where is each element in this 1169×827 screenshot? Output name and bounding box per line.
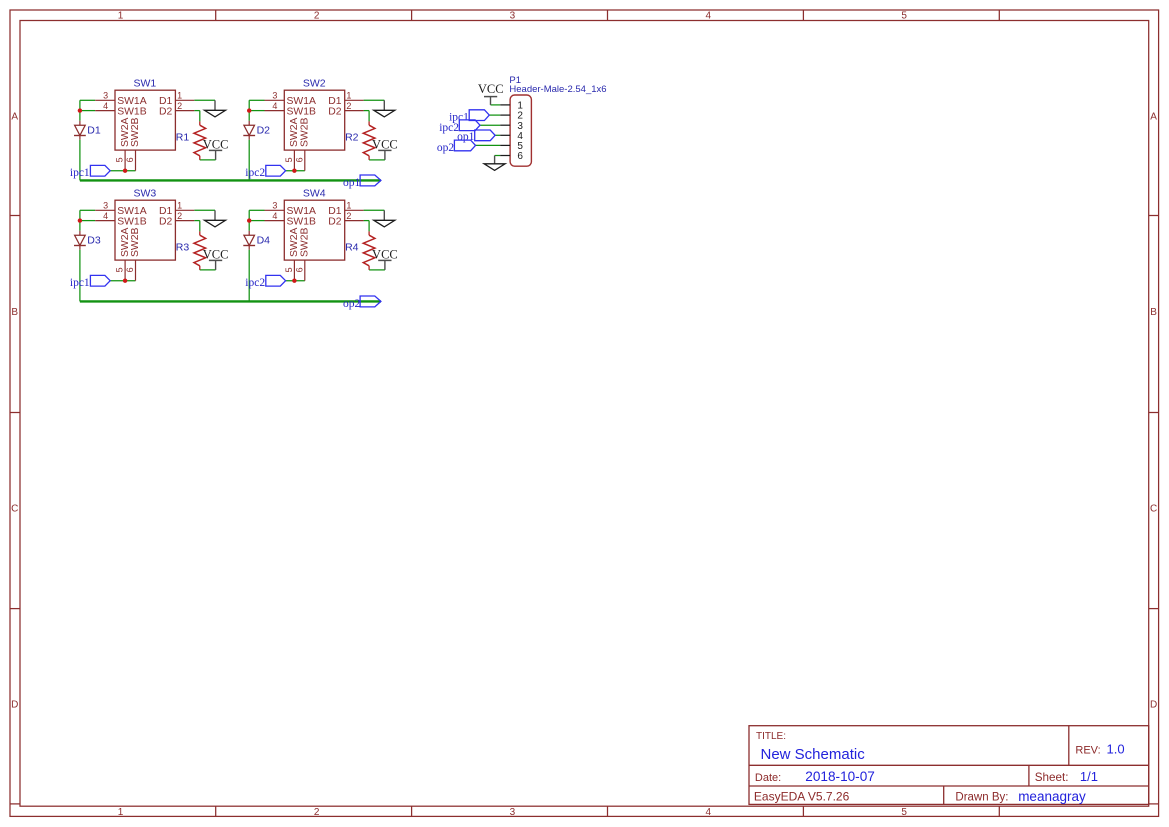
column tick marks top xyxy=(216,10,1000,21)
svg-text:D2: D2 xyxy=(257,124,271,136)
wire junction to diode D2 anode xyxy=(248,111,250,121)
svg-text:2: 2 xyxy=(346,101,351,111)
svg-text:SW2B: SW2B xyxy=(130,117,141,147)
diode D1 xyxy=(74,121,101,140)
svg-text:SW1A: SW1A xyxy=(117,96,147,107)
svg-text:Header-Male-2.54_1x6: Header-Male-2.54_1x6 xyxy=(509,84,606,95)
svg-text:EasyEDA V5.7.26: EasyEDA V5.7.26 xyxy=(754,790,850,804)
junction dot at pin4/D4 xyxy=(247,218,251,222)
wire pin1 to ground of SW4 xyxy=(364,209,385,211)
svg-text:R1: R1 xyxy=(176,131,190,143)
switch SW2 xyxy=(265,77,364,170)
row letters left xyxy=(11,112,18,711)
svg-text:2: 2 xyxy=(314,11,320,22)
net flag ipc1 at SW3 xyxy=(70,275,110,289)
svg-text:R3: R3 xyxy=(176,241,190,253)
svg-text:5: 5 xyxy=(115,267,125,272)
svg-text:R4: R4 xyxy=(345,241,359,253)
svg-text:D1: D1 xyxy=(328,206,342,217)
title block row line 2 xyxy=(749,785,1149,787)
svg-text:SW2B: SW2B xyxy=(299,117,310,147)
junction dot at pin5 of SW1 xyxy=(123,169,127,173)
svg-text:SW2B: SW2B xyxy=(299,227,310,257)
resistor R4 xyxy=(345,231,375,270)
wire ipc1 flag to pins 5,6 of SW1 xyxy=(110,170,135,172)
svg-text:3: 3 xyxy=(272,201,277,211)
resistor R2 xyxy=(345,121,375,159)
wire op2 flag to pin5 of P1 xyxy=(476,144,501,146)
svg-text:6: 6 xyxy=(294,267,304,272)
svg-text:op2: op2 xyxy=(437,142,455,154)
net flag op1 at P1 xyxy=(457,130,495,143)
diode D3 xyxy=(74,231,101,250)
diode D4 xyxy=(243,231,270,250)
title block divider Drawn By xyxy=(943,786,945,804)
svg-text:SW1A: SW1A xyxy=(117,206,147,217)
wire op1 flag to pin4 of P1 xyxy=(495,134,500,136)
wire pin3 net of SW1 xyxy=(80,100,95,110)
svg-text:A: A xyxy=(11,112,18,123)
wire VCC to pin1 of P1 xyxy=(491,104,501,106)
svg-text:VCC: VCC xyxy=(478,82,504,96)
svg-text:2: 2 xyxy=(346,211,351,221)
ground symbol at pin1 of SW2 xyxy=(374,100,395,117)
svg-text:SW1: SW1 xyxy=(134,77,157,89)
net flag ipc2 at SW4 xyxy=(245,275,285,289)
svg-text:6: 6 xyxy=(517,151,523,162)
svg-text:4: 4 xyxy=(103,101,108,111)
svg-text:SW2: SW2 xyxy=(303,77,326,89)
svg-text:D2: D2 xyxy=(159,106,173,117)
wire ipc2 flag to pins 5,6 of SW4 xyxy=(286,280,305,282)
column numbers top xyxy=(118,11,908,22)
VCC flag at resistor R2 xyxy=(372,138,398,160)
svg-text:meanagray: meanagray xyxy=(1018,789,1086,804)
svg-text:VCC: VCC xyxy=(372,138,398,152)
wire pin6 of P1 to ground xyxy=(495,155,501,157)
net flag ipc1 at P1 xyxy=(449,110,489,124)
svg-text:D4: D4 xyxy=(257,234,271,246)
svg-text:4: 4 xyxy=(272,101,277,111)
net flag ipc2 at P1 xyxy=(439,120,480,134)
wire ipc2 flag to pins 5,6 of SW2 xyxy=(286,170,305,172)
svg-text:New Schematic: New Schematic xyxy=(761,746,866,763)
svg-text:5: 5 xyxy=(901,11,907,22)
svg-text:2018-10-07: 2018-10-07 xyxy=(805,769,875,784)
svg-text:D: D xyxy=(11,700,18,711)
svg-text:6: 6 xyxy=(125,157,135,162)
svg-text:C: C xyxy=(1150,504,1157,515)
ground symbol at pin1 of SW1 xyxy=(205,100,226,117)
junction dot at pin4/D1 xyxy=(78,108,82,112)
wire pin3 net of SW4 xyxy=(249,210,264,220)
row tick marks right xyxy=(1149,216,1159,804)
wire junction to diode D3 anode xyxy=(79,221,81,231)
net flag ipc1 at SW1 xyxy=(70,165,110,179)
svg-text:6: 6 xyxy=(294,157,304,162)
svg-text:SW4: SW4 xyxy=(303,187,326,199)
svg-text:D1: D1 xyxy=(87,124,101,136)
svg-text:3: 3 xyxy=(103,91,108,101)
svg-text:1: 1 xyxy=(177,91,182,101)
svg-text:5: 5 xyxy=(115,157,125,162)
svg-text:1: 1 xyxy=(346,91,351,101)
wire resistor R2 bottom to VCC xyxy=(369,159,385,161)
junction dot at pin5 of SW4 xyxy=(292,279,296,283)
wire pin4 net of SW1 xyxy=(80,110,95,112)
svg-text:SW1B: SW1B xyxy=(287,106,317,117)
wire pin1 to ground of SW1 xyxy=(194,99,215,101)
wire diode D1 cathode down to bus xyxy=(79,140,81,181)
diode D2 xyxy=(243,121,270,140)
wire pin4 net of SW3 xyxy=(80,220,95,222)
wire pin3 net of SW2 xyxy=(249,100,264,110)
svg-text:3: 3 xyxy=(510,807,516,818)
svg-text:VCC: VCC xyxy=(372,248,398,262)
svg-text:3: 3 xyxy=(510,11,516,22)
ground symbol at pin6 of P1 xyxy=(484,156,505,171)
svg-text:3: 3 xyxy=(272,91,277,101)
svg-text:REV:: REV: xyxy=(1075,745,1100,757)
svg-text:ipc2: ipc2 xyxy=(245,167,265,179)
svg-text:D1: D1 xyxy=(159,206,173,217)
wire pin4 net of SW2 xyxy=(249,110,264,112)
title block divider Sheet xyxy=(1028,765,1030,786)
header connector P1 xyxy=(500,75,606,166)
svg-text:VCC: VCC xyxy=(203,138,229,152)
net flag op2 xyxy=(343,296,381,310)
svg-text:D: D xyxy=(1150,700,1157,711)
switch SW1 xyxy=(95,77,194,170)
svg-text:1: 1 xyxy=(118,11,124,22)
svg-text:R2: R2 xyxy=(345,131,359,143)
title block row line 1 xyxy=(749,764,1149,766)
svg-text:SW1B: SW1B xyxy=(287,216,317,227)
svg-text:1/1: 1/1 xyxy=(1080,769,1098,784)
svg-text:3: 3 xyxy=(103,201,108,211)
VCC flag at resistor R3 xyxy=(203,248,229,270)
svg-text:B: B xyxy=(11,307,18,318)
svg-text:SW1B: SW1B xyxy=(117,106,147,117)
row tick marks left xyxy=(10,216,20,804)
svg-text:A: A xyxy=(1150,112,1157,123)
net flag op1 xyxy=(343,175,381,189)
junction dot at pin5 of SW2 xyxy=(292,169,296,173)
wire junction to diode D1 anode xyxy=(79,111,81,121)
svg-text:4: 4 xyxy=(706,11,712,22)
svg-text:5: 5 xyxy=(901,807,907,818)
svg-text:2: 2 xyxy=(314,807,320,818)
svg-text:op1: op1 xyxy=(343,177,361,189)
wire ipc1 flag to pin2 of P1 xyxy=(489,114,500,116)
column tick marks bottom xyxy=(216,806,1000,816)
wire diode D3 cathode down to bus xyxy=(79,250,81,302)
svg-text:1: 1 xyxy=(177,201,182,211)
ground symbol at pin1 of SW3 xyxy=(205,210,226,227)
svg-text:2: 2 xyxy=(177,211,182,221)
wire pin4 net of SW4 xyxy=(249,220,264,222)
row letters right xyxy=(1150,112,1157,711)
svg-text:SW1A: SW1A xyxy=(287,96,317,107)
svg-text:SW1A: SW1A xyxy=(287,206,317,217)
wire resistor R4 bottom to VCC xyxy=(369,269,385,271)
wire bus net op2 (row 2) xyxy=(80,300,381,302)
net flag op2 at P1 xyxy=(437,140,476,154)
junction dot at pin4/D3 xyxy=(78,218,82,222)
wire ipc1 flag to pins 5,6 of SW3 xyxy=(110,280,135,282)
wire diode D4 cathode down to bus xyxy=(248,250,250,302)
svg-text:1: 1 xyxy=(346,201,351,211)
svg-text:D2: D2 xyxy=(328,216,342,227)
junction dot at pin5 of SW3 xyxy=(123,279,127,283)
switch SW4 xyxy=(265,187,364,280)
wire pin2 to resistor R3 xyxy=(194,221,200,232)
wire pin2 to resistor R2 xyxy=(364,111,370,122)
wire pin2 to resistor R1 xyxy=(194,111,200,122)
svg-text:D2: D2 xyxy=(328,106,342,117)
svg-text:ipc2: ipc2 xyxy=(245,277,265,289)
resistor R1 xyxy=(176,121,206,159)
ground symbol at pin1 of SW4 xyxy=(374,210,395,227)
svg-text:TITLE:: TITLE: xyxy=(756,731,786,742)
svg-text:C: C xyxy=(11,504,18,515)
svg-text:SW3: SW3 xyxy=(134,187,157,199)
svg-text:5: 5 xyxy=(284,267,294,272)
wire pin1 to ground of SW3 xyxy=(194,209,215,211)
svg-text:4: 4 xyxy=(272,211,277,221)
svg-text:D1: D1 xyxy=(159,96,173,107)
svg-text:B: B xyxy=(1150,307,1157,318)
VCC flag at P1 xyxy=(478,82,504,105)
wire bus net op1 (row 1) xyxy=(80,179,381,181)
svg-text:ipc1: ipc1 xyxy=(70,167,90,179)
wire resistor R3 bottom to VCC xyxy=(200,269,216,271)
svg-text:ipc1: ipc1 xyxy=(70,277,90,289)
svg-text:Drawn By:: Drawn By: xyxy=(955,792,1008,804)
title block outline xyxy=(749,726,1149,805)
svg-text:D2: D2 xyxy=(159,216,173,227)
svg-text:1: 1 xyxy=(118,807,124,818)
svg-text:Date:: Date: xyxy=(755,772,781,784)
wire pin3 net of SW3 xyxy=(80,210,95,220)
wire pin2 to resistor R4 xyxy=(364,221,370,232)
svg-text:op2: op2 xyxy=(343,298,361,310)
svg-text:4: 4 xyxy=(103,211,108,221)
svg-text:6: 6 xyxy=(125,267,135,272)
wire junction to diode D4 anode xyxy=(248,221,250,231)
svg-text:D3: D3 xyxy=(87,234,101,246)
junction dot at pin4/D2 xyxy=(247,108,251,112)
resistor R3 xyxy=(176,231,206,270)
svg-text:1.0: 1.0 xyxy=(1107,742,1125,757)
svg-text:2: 2 xyxy=(177,101,182,111)
switch SW3 xyxy=(95,187,194,280)
svg-text:5: 5 xyxy=(284,157,294,162)
net flag ipc2 at SW2 xyxy=(245,165,285,179)
wire ipc2 flag to pin3 of P1 xyxy=(480,124,500,126)
svg-text:D1: D1 xyxy=(328,96,342,107)
svg-text:SW2B: SW2B xyxy=(130,227,141,257)
svg-text:Sheet:: Sheet: xyxy=(1035,771,1069,784)
wire diode D2 cathode down to bus xyxy=(248,140,250,181)
VCC flag at resistor R1 xyxy=(203,138,229,160)
wire pin1 to ground of SW2 xyxy=(364,99,385,101)
title block divider REV xyxy=(1068,726,1070,766)
svg-text:4: 4 xyxy=(706,807,712,818)
svg-text:VCC: VCC xyxy=(203,248,229,262)
VCC flag at resistor R4 xyxy=(372,248,398,270)
column numbers bottom xyxy=(118,807,908,818)
wire resistor R1 bottom to VCC xyxy=(200,159,216,161)
svg-text:SW1B: SW1B xyxy=(117,216,147,227)
